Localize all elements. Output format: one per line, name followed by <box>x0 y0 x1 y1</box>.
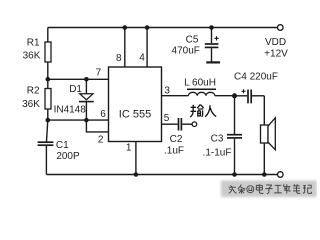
label input (CJK drawn) <box>190 105 216 117</box>
node D1 top junction <box>84 77 89 82</box>
op IC 555 box <box>109 67 162 142</box>
wire inductor to node D <box>215 95 235 97</box>
pin 5 wire <box>162 123 178 125</box>
svg-text:C5: C5 <box>186 35 199 46</box>
capacitor C5 470uF <box>172 28 219 62</box>
svg-text:36K: 36K <box>23 51 41 62</box>
terminal input <box>192 122 197 127</box>
terminal bottom right <box>278 172 284 178</box>
node C3 rail junction <box>232 172 237 177</box>
capacitor C3 .1-1uF <box>203 96 242 175</box>
svg-text:2: 2 <box>98 135 104 146</box>
wire C4 to speaker <box>263 96 265 125</box>
pin 8 wire <box>124 28 126 68</box>
pin 4 wire <box>146 28 148 68</box>
pin 1 wire <box>135 142 137 175</box>
node pin4 rail junction <box>145 25 150 30</box>
svg-text:470uF: 470uF <box>172 45 200 56</box>
label VDD +12V <box>264 37 288 60</box>
wire top VDD rail <box>48 27 278 29</box>
svg-text:VDD: VDD <box>265 37 286 48</box>
capacitor C1 200P <box>38 120 80 174</box>
watermark text (CJK drawn) <box>229 184 312 193</box>
speaker <box>261 118 276 175</box>
svg-text:36K: 36K <box>22 99 40 110</box>
svg-text:8: 8 <box>116 53 122 64</box>
node pin1 rail junction <box>134 172 139 177</box>
svg-text:R1: R1 <box>27 38 40 49</box>
node B junction D1 bottom <box>84 118 89 123</box>
node D junction L/C4/C3 <box>232 93 237 98</box>
wire bottom rail <box>46 174 277 176</box>
svg-text:3: 3 <box>164 86 170 97</box>
svg-text:IC 555: IC 555 <box>119 109 151 121</box>
node C5 rail junction <box>209 25 214 30</box>
wire node C to pin 6 <box>48 119 109 121</box>
svg-text:.1uF: .1uF <box>164 146 184 157</box>
svg-text:D1: D1 <box>69 84 82 95</box>
svg-text:+12V: +12V <box>264 49 288 60</box>
svg-text:L 60uH: L 60uH <box>184 78 216 89</box>
diode D1 IN4148 <box>54 79 94 120</box>
svg-text:6: 6 <box>100 109 106 120</box>
pin 3 wire <box>162 95 189 97</box>
svg-text:C1: C1 <box>56 140 69 151</box>
node speaker rail junction <box>262 172 267 177</box>
ground bar C5 <box>206 61 220 63</box>
svg-text:C3: C3 <box>211 134 224 145</box>
svg-text:7: 7 <box>96 68 102 79</box>
node A junction R1/R2/pin7 <box>46 77 51 82</box>
svg-text:.1-1uF: .1-1uF <box>203 148 232 159</box>
svg-text:IN4148: IN4148 <box>54 105 87 116</box>
resistor R2 <box>22 79 51 120</box>
wire node B to pin 2 <box>86 120 108 132</box>
svg-text:C2: C2 <box>170 134 183 145</box>
svg-text:4: 4 <box>139 53 145 64</box>
svg-text:C4 220uF: C4 220uF <box>234 72 278 83</box>
svg-text:1: 1 <box>126 143 132 154</box>
svg-text:200P: 200P <box>56 151 80 162</box>
node C junction R2/C1 <box>46 118 51 123</box>
svg-text:R2: R2 <box>27 86 40 97</box>
node pin8 rail junction <box>123 25 128 30</box>
resistor R1 <box>23 28 51 80</box>
svg-text:5: 5 <box>164 113 170 124</box>
wire node A to pin 7 <box>48 78 109 80</box>
terminal VDD <box>278 25 284 31</box>
capacitor C4 220uF <box>234 72 278 104</box>
capacitor C2 .1uF <box>164 118 192 157</box>
inductor L 60uH <box>184 78 216 96</box>
